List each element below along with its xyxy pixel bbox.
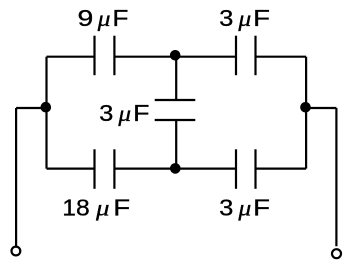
svg-text:μ: μ — [237, 6, 251, 31]
svg-text:18: 18 — [62, 195, 89, 221]
svg-text:F: F — [253, 5, 270, 31]
svg-text:3: 3 — [219, 195, 233, 221]
svg-text:9: 9 — [78, 5, 94, 31]
svg-text:F: F — [133, 100, 149, 126]
svg-text:F: F — [113, 195, 130, 221]
svg-text:F: F — [253, 195, 270, 221]
svg-text:μ: μ — [237, 196, 251, 221]
svg-text:μ: μ — [96, 6, 110, 31]
svg-text:μ: μ — [95, 196, 110, 221]
svg-text:3: 3 — [219, 5, 233, 31]
svg-text:3: 3 — [99, 100, 113, 126]
svg-text:F: F — [112, 5, 128, 31]
svg-text:μ: μ — [117, 101, 131, 126]
